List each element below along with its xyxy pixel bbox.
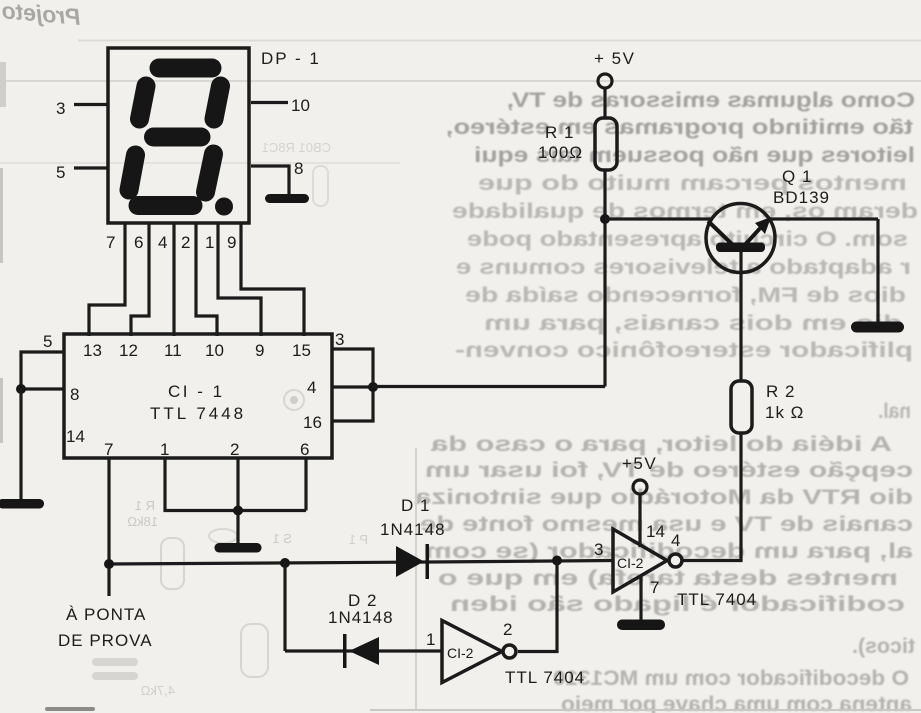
svg-text:r adaptado a televisores comun: r adaptado a televisores comuns e xyxy=(456,256,911,279)
svg-text:D 1: D 1 xyxy=(401,496,430,515)
svg-text:dio em dois canais, para um: dio em dois canais, para um xyxy=(484,312,902,335)
node pin4 junction xyxy=(368,382,378,392)
node pin2 junction xyxy=(233,506,243,516)
svg-text:R 1: R 1 xyxy=(135,498,155,513)
svg-text:cepção estéreo de TV, foi usar: cepção estéreo de TV, foi usar um xyxy=(425,459,913,482)
svg-text:16: 16 xyxy=(303,413,322,432)
svg-text:dios de FM, fornecendo saída d: dios de FM, fornecendo saída de xyxy=(465,284,906,307)
svg-text:3: 3 xyxy=(56,99,65,118)
svg-text:TTL 7404: TTL 7404 xyxy=(505,668,585,687)
svg-text:tão emitindo programas em esté: tão emitindo programas em estéreo, xyxy=(446,116,913,139)
resistor R2 xyxy=(731,381,752,433)
svg-text:4: 4 xyxy=(158,233,167,252)
svg-text:1k Ω: 1k Ω xyxy=(765,403,804,422)
svg-text:CI-2: CI-2 xyxy=(447,645,474,661)
wire display pin2 to CI-1 pin10 xyxy=(196,223,217,336)
svg-text:BD139: BD139 xyxy=(773,188,830,207)
svg-text:10: 10 xyxy=(291,96,310,115)
svg-text:4: 4 xyxy=(307,378,316,397)
wire down to right ground xyxy=(876,219,879,323)
wire CI-1 pin8 xyxy=(21,387,64,390)
wire base to Q1 xyxy=(605,217,712,220)
svg-text:14: 14 xyxy=(66,427,85,446)
wire R2 down to inverter output xyxy=(683,433,741,561)
wire lower inverter output up to main wire xyxy=(518,561,557,652)
svg-text:+ 5V: + 5V xyxy=(594,49,635,68)
ground left xyxy=(0,499,44,509)
svg-text:CI - 1: CI - 1 xyxy=(168,382,225,401)
svg-text:A idéia do leitor, para o caso: A idéia do leitor, para o caso da xyxy=(431,433,892,456)
svg-text:11: 11 xyxy=(164,341,182,360)
svg-text:1: 1 xyxy=(205,233,214,252)
wire CI-1 pin6 xyxy=(304,458,307,511)
svg-text:4,7kΩ: 4,7kΩ xyxy=(140,683,175,698)
svg-text:P 1: P 1 xyxy=(349,532,368,547)
svg-text:18kΩ: 18kΩ xyxy=(127,514,158,529)
svg-text:canais de TV e usa mesmo fonte: canais de TV e usa mesmo fonte de xyxy=(420,513,913,536)
wire CI-1 pin4 xyxy=(332,385,373,388)
wire CI-1 pin2 down xyxy=(236,458,239,543)
svg-text:7: 7 xyxy=(106,233,115,252)
wire CI-1 pin3 xyxy=(332,349,373,387)
svg-text:8: 8 xyxy=(70,385,79,404)
svg-text:Como algumas emissoras de TV,: Como algumas emissoras de TV, xyxy=(507,89,915,112)
svg-text:9: 9 xyxy=(255,341,264,360)
svg-text:13: 13 xyxy=(83,341,102,360)
svg-text:plificador estereofônico conve: plificador estereofônico conven- xyxy=(455,339,913,362)
svg-text:R 2: R 2 xyxy=(766,382,795,401)
wire +5V to inverter pin14 xyxy=(638,494,641,547)
svg-text:5: 5 xyxy=(43,332,52,351)
svg-text:5: 5 xyxy=(56,163,65,182)
svg-text:nal.: nal. xyxy=(878,400,911,423)
svg-text:S 1: S 1 xyxy=(272,531,292,546)
decimal point xyxy=(215,198,233,216)
wire display pin7 to CI-1 pin13 xyxy=(89,223,125,336)
svg-text:TTL 7448: TTL 7448 xyxy=(150,404,246,423)
wire Q1 emitter to right xyxy=(767,217,878,220)
wire branch down to D2 wire xyxy=(283,563,286,651)
wire R1 down to pin4 wire xyxy=(603,170,606,387)
op IC CI-1 TTL7448 xyxy=(64,334,332,458)
svg-text:R 1: R 1 xyxy=(545,123,574,142)
svg-text:TTL 7404: TTL 7404 xyxy=(677,590,757,609)
svg-text:CI-2: CI-2 xyxy=(617,555,644,571)
svg-text:7: 7 xyxy=(650,578,659,597)
wire display pin6 to CI-1 pin12 xyxy=(131,223,149,336)
svg-text:6: 6 xyxy=(300,440,309,459)
svg-text:dio RTV da Motorádio que sinto: dio RTV da Motorádio que sintoniza xyxy=(415,486,913,509)
wire inverter pin7 to ground xyxy=(639,577,642,620)
display DP-1 xyxy=(108,48,249,223)
showthrough: faint rules and marks xyxy=(78,40,921,42)
svg-text:14: 14 xyxy=(646,522,665,541)
wire CI-1 pin5 xyxy=(21,352,64,389)
seven-segment digit 8 xyxy=(129,68,221,206)
showthrough: mirrored page text right column xyxy=(415,89,918,713)
svg-text:DE PROVA: DE PROVA xyxy=(58,631,153,650)
display pin 10 xyxy=(251,101,288,104)
ground bar at display pin 8 xyxy=(265,194,309,203)
node probe junction xyxy=(104,559,114,569)
svg-text:mentes desta tarefa) em que o: mentes desta tarefa) em que o xyxy=(438,567,898,590)
svg-text:DP - 1: DP - 1 xyxy=(261,49,321,68)
node base junction xyxy=(600,214,610,224)
svg-text:CB01 R8C1: CB01 R8C1 xyxy=(262,140,331,155)
wire down to left ground xyxy=(19,389,22,500)
wire D2 row xyxy=(285,649,442,652)
wire display pin4 to CI-1 pin11 xyxy=(172,223,175,336)
display pin 8 wire xyxy=(251,166,289,195)
wire CI-1 pin1 xyxy=(165,458,306,511)
svg-text:2: 2 xyxy=(503,620,512,639)
node inverter output junction xyxy=(552,556,562,566)
svg-text:3: 3 xyxy=(594,540,603,559)
svg-text:som. O circuito apresentado po: som. O circuito apresentado pode xyxy=(467,228,908,251)
svg-text:À PONTA: À PONTA xyxy=(66,605,146,624)
svg-text:15: 15 xyxy=(292,341,311,360)
svg-text:1N4148: 1N4148 xyxy=(328,608,394,627)
ground below upper inverter xyxy=(617,620,665,631)
ground right of Q1 xyxy=(851,322,904,333)
wire pin4 junction to R1 column xyxy=(373,385,605,388)
svg-text:8: 8 xyxy=(294,159,303,178)
resistor R1 xyxy=(595,118,617,170)
svg-text:+5V: +5V xyxy=(622,454,657,473)
svg-text:7: 7 xyxy=(104,440,113,459)
svg-text:6: 6 xyxy=(134,233,143,252)
wire display pin9 to CI-1 pin15 xyxy=(241,223,304,336)
svg-text:2: 2 xyxy=(230,440,239,459)
svg-text:ticos).: ticos). xyxy=(852,635,915,658)
inverter CI-2 (lower) xyxy=(442,621,502,683)
svg-text:Q 1: Q 1 xyxy=(782,167,812,186)
svg-text:mentos percam muito do que: mentos percam muito do que xyxy=(478,172,907,195)
transistor Q1 BD139 xyxy=(706,204,775,273)
display pin 5 xyxy=(74,166,108,169)
main probe wire xyxy=(109,561,613,565)
ground below CI-1 xyxy=(215,543,262,553)
display pin 3 xyxy=(74,103,108,106)
svg-text:4: 4 xyxy=(671,531,680,550)
wire +5V to R1 xyxy=(603,88,606,118)
node branch junction xyxy=(280,558,290,568)
wire Q1 collector down xyxy=(739,252,742,381)
svg-text:1: 1 xyxy=(426,630,435,649)
node pin5/pin8 junction xyxy=(16,384,26,394)
svg-text:12: 12 xyxy=(119,341,138,360)
svg-text:O decodificador com um MC1310: O decodificador com um MC1310 xyxy=(553,667,909,690)
inverter CI-2 (upper) xyxy=(613,529,667,592)
svg-text:3: 3 xyxy=(335,330,344,349)
wire CI-1 pin16 xyxy=(332,387,373,421)
svg-text:1: 1 xyxy=(160,440,169,459)
svg-text:10: 10 xyxy=(205,341,224,360)
svg-text:2: 2 xyxy=(181,233,190,252)
svg-text:100Ω: 100Ω xyxy=(538,143,583,162)
wire display pin1 to CI-1 pin9 xyxy=(218,223,261,336)
svg-text:1N4148: 1N4148 xyxy=(380,520,446,539)
svg-text:9: 9 xyxy=(227,233,236,252)
diode D1 1N4148 xyxy=(396,546,424,577)
wire CI-1 pin7 down xyxy=(107,458,110,596)
diode D2 1N4148 xyxy=(343,634,347,668)
